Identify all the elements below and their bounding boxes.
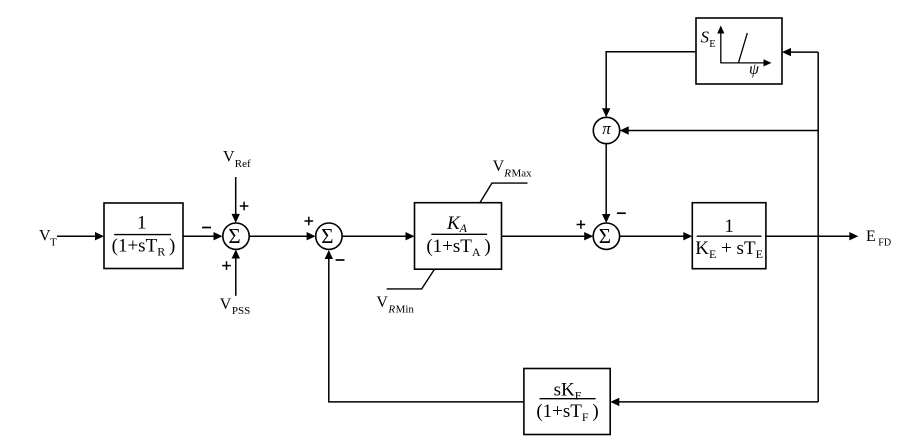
arrowhead into sum3 [584, 232, 593, 240]
svg-text:FD: FD [878, 238, 891, 249]
wire sum2 to amplifier block [342, 235, 407, 237]
plus sign above sum1 [240, 202, 249, 211]
svg-text:V: V [223, 148, 235, 165]
wire feedback into KF block [618, 401, 818, 403]
plus sign left of sum3 [577, 220, 586, 229]
svg-text:1: 1 [724, 216, 734, 237]
arrowhead EFD output [849, 232, 858, 240]
summing junction 2 [316, 223, 342, 249]
wire exciter to EFD output [766, 235, 851, 237]
wire KF block to sum2 bottom [329, 258, 524, 402]
svg-text:(1+sTR ): (1+sTR ) [112, 236, 176, 259]
svg-text:R: R [387, 303, 395, 315]
svg-text:R: R [503, 168, 511, 180]
arrowhead VPSS up into sum1 [232, 250, 240, 259]
svg-text:Min: Min [396, 303, 415, 315]
block1 fraction bar [114, 234, 171, 236]
svg-text:KE + sTE: KE + sTE [695, 238, 763, 261]
svg-text:Max: Max [512, 168, 533, 180]
wire pi to sum3 [605, 144, 607, 216]
saturation curve slanted line [738, 33, 747, 63]
minus sign left of sum1 [202, 227, 211, 229]
svg-text:S: S [701, 27, 710, 46]
plus sign left of sum2 [305, 217, 314, 226]
KF fraction bar [540, 398, 596, 400]
svg-text:Ref: Ref [235, 158, 251, 170]
wire feedback vertical right [817, 52, 819, 402]
amplifier fraction bar [431, 233, 487, 235]
wire sum3 to exciter block [620, 235, 685, 237]
block 1/(1+sTR) [104, 203, 183, 269]
wire amplifier to sum3 [502, 235, 586, 237]
saturation graph vertical axis [720, 32, 722, 63]
svg-text:T: T [50, 237, 57, 249]
minus sign below right of sum2 [336, 259, 345, 261]
arrowhead into sum2 [307, 232, 316, 240]
arrowhead into exciter [683, 232, 692, 240]
arrowhead into KF block [610, 398, 619, 406]
arrowhead into pi from right [620, 126, 629, 134]
minus sign right of pi-sum3 wire [617, 212, 626, 214]
arrowhead into SE block [782, 48, 791, 56]
svg-text:V: V [376, 294, 388, 311]
svg-text:ψ: ψ [749, 61, 760, 78]
arrowhead VRef down into sum1 [232, 214, 240, 223]
arrowhead feedback up into sum2 [325, 250, 333, 259]
wire into pi from right [627, 130, 818, 132]
wire VT input [57, 235, 97, 237]
summing junction 1 [223, 223, 249, 249]
wire VRef into sum1 [235, 177, 237, 215]
svg-text:V: V [220, 296, 232, 313]
exciter fraction bar [697, 235, 762, 237]
VRMin annotation line [387, 270, 435, 289]
block KA/(1+sTA) [415, 203, 502, 270]
wire block1 to sum1 [183, 235, 215, 237]
saturation graph h-axis arrowhead [764, 59, 772, 66]
wire into SE block from right [790, 51, 819, 53]
VRMax annotation line [480, 183, 528, 203]
wire sum1 to sum2 [249, 235, 308, 237]
svg-text:(1+sTF ): (1+sTF ) [536, 401, 598, 424]
arrowhead into amplifier [406, 232, 415, 240]
summing junction 3 [593, 223, 619, 249]
svg-text:V: V [493, 158, 505, 175]
block SE saturation [696, 18, 782, 84]
svg-text:E: E [866, 228, 876, 245]
block sKF/(1+sTF) [524, 369, 610, 435]
svg-text:Σ: Σ [228, 224, 240, 248]
arrowhead pi output down into sum3 [602, 214, 610, 223]
block 1/(KE+sTE) [692, 203, 766, 269]
svg-text:E: E [709, 39, 715, 50]
svg-text:Σ: Σ [599, 224, 611, 248]
arrowhead SE output down into pi [602, 108, 610, 117]
wire SE output to pi [606, 52, 696, 110]
plus sign below sum1 [222, 261, 231, 270]
svg-text:PSS: PSS [232, 305, 250, 317]
svg-text:1: 1 [137, 213, 147, 234]
pi multiplier [593, 117, 619, 143]
wire VPSS into sum1 [235, 257, 237, 296]
arrowhead into sum1 [214, 232, 223, 240]
saturation graph v-axis arrowhead [717, 26, 724, 34]
svg-text:(1+sTA ): (1+sTA ) [426, 236, 490, 259]
svg-text:π: π [602, 119, 611, 138]
arrowhead VT into block1 [95, 232, 104, 240]
saturation graph horizontal axis [721, 62, 765, 64]
svg-text:Σ: Σ [321, 224, 333, 248]
